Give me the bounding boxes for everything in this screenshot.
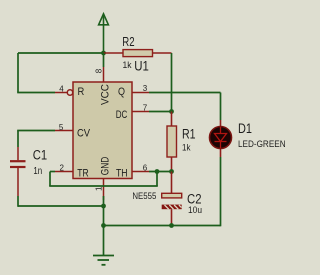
pin 3 stub	[132, 92, 149, 94]
LED D1 diode symbol	[215, 127, 227, 148]
svg-text:LED-GREEN: LED-GREEN	[238, 139, 286, 150]
node junction bottom rail	[101, 223, 106, 228]
wire R2 to DC node vertical	[171, 53, 173, 112]
node junction R2/R1/pin7	[169, 109, 174, 114]
svg-text:C1: C1	[33, 147, 47, 162]
svg-text:3: 3	[143, 84, 148, 93]
resistor R2	[123, 50, 153, 57]
svg-text:U1: U1	[134, 58, 149, 74]
wire pin3 to LED	[149, 93, 221, 121]
wire pin4 horizontal	[17, 92, 55, 94]
svg-text:10u: 10u	[188, 205, 202, 216]
svg-text:TH: TH	[116, 168, 128, 180]
wire pin6 to TR loop	[49, 172, 171, 187]
node junction at power rail	[101, 51, 106, 56]
svg-text:8: 8	[94, 68, 103, 73]
svg-text:7: 7	[143, 103, 148, 112]
LED D1 body	[210, 127, 232, 149]
pin 1 stub	[103, 179, 105, 201]
ground symbol	[93, 256, 114, 265]
svg-text:GND: GND	[99, 157, 111, 176]
capacitor C2 bottom plate hatched	[162, 205, 182, 210]
wire LED bottom drop	[220, 157, 222, 226]
svg-text:5: 5	[59, 123, 64, 132]
svg-text:VCC: VCC	[99, 84, 111, 105]
wire ground rail horizontal	[18, 205, 104, 207]
wire pin5 horizontal	[17, 130, 55, 132]
svg-text:1k: 1k	[123, 60, 132, 71]
node junction C2 bottom	[169, 223, 174, 228]
svg-text:TR: TR	[77, 167, 88, 179]
wire C1 top drop	[17, 131, 19, 148]
pin 8 stub	[103, 67, 105, 82]
resistor R2 pins	[104, 52, 172, 54]
capacitor C2 top plate	[162, 193, 182, 198]
svg-text:R: R	[78, 86, 85, 98]
LED D1 pins	[220, 120, 222, 157]
svg-text:DC: DC	[116, 109, 128, 121]
svg-text:1k: 1k	[182, 143, 191, 154]
svg-text:4: 4	[59, 84, 64, 93]
node junction TH/R1/C2	[169, 169, 174, 174]
power symbol VCC arrow	[99, 14, 109, 53]
pin 2 stub	[55, 171, 73, 173]
pin 6 stub	[132, 171, 149, 173]
wire left drop to pin4	[17, 53, 19, 93]
wire bottom rail horizontal	[104, 225, 221, 227]
wire GND pin1 down	[103, 196, 105, 256]
wire top rail left	[18, 52, 104, 54]
capacitor C1	[10, 147, 26, 196]
svg-text:NE555: NE555	[132, 191, 156, 202]
pin 4 stub with bubble	[55, 90, 73, 95]
svg-text:Q: Q	[118, 86, 125, 98]
wire pin7 to node	[149, 111, 172, 113]
svg-text:R2: R2	[122, 35, 134, 49]
pin 7 stub	[132, 111, 149, 113]
node junction TH/TR	[155, 169, 160, 174]
pin 8 wire	[103, 53, 105, 67]
svg-text:2: 2	[60, 164, 65, 173]
svg-text:D1: D1	[238, 121, 252, 136]
resistor R1 pins	[171, 112, 173, 172]
capacitor C2 pins	[171, 172, 173, 226]
wire C1 bottom to ground rail	[17, 196, 19, 207]
node junction gnd rail	[101, 204, 106, 209]
svg-text:6: 6	[143, 163, 148, 172]
op-amp U1 555 body	[73, 82, 132, 179]
svg-text:R1: R1	[182, 126, 196, 141]
pin 5 stub	[55, 130, 73, 132]
svg-text:CV: CV	[77, 128, 91, 140]
resistor R1	[167, 126, 177, 157]
svg-text:1n: 1n	[33, 166, 42, 177]
